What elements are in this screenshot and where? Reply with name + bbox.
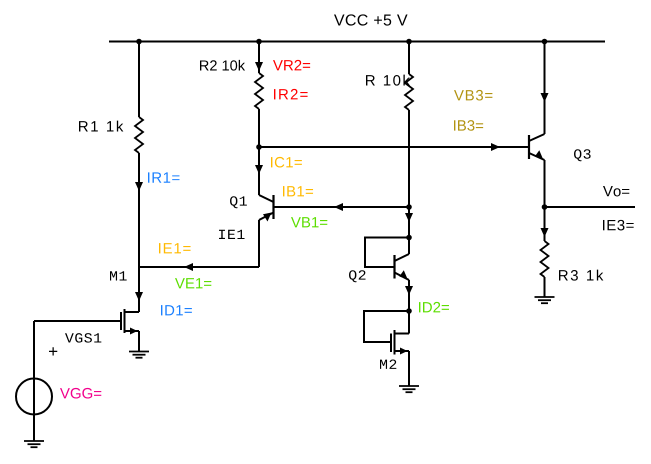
arrow Q1 emitter (PNP) <box>263 213 272 222</box>
resistor R <box>405 74 413 110</box>
label IE3= <box>603 220 634 231</box>
label + of VGG <box>49 347 57 355</box>
label IE1 <box>219 230 245 239</box>
label IB1= orange <box>283 186 313 196</box>
label M2 <box>380 360 396 369</box>
label ID1= blue <box>161 305 192 315</box>
VCC rail wire <box>109 41 605 43</box>
resistor R2 <box>255 73 263 109</box>
wire Q2 base loop <box>365 238 409 268</box>
label IC1= orange <box>271 157 302 168</box>
arrow VB3 down <box>541 93 549 102</box>
wire Q1 base net y207 <box>274 206 410 208</box>
junction node Vo <box>542 204 548 210</box>
label M1 <box>110 271 127 280</box>
transistor Q3 <box>529 134 545 160</box>
wire Q3 emitter down <box>544 160 546 241</box>
source VGG <box>16 379 52 415</box>
label ID2= green <box>419 302 449 312</box>
wire Q2 emitter to M2 <box>408 280 410 334</box>
arrow Q2 collector current down <box>405 213 413 222</box>
ground M2 <box>399 386 419 392</box>
arrow Q3 emitter (NPN) <box>535 150 543 159</box>
wire output Vo <box>545 206 636 208</box>
ground VGG <box>24 441 44 447</box>
resistor R3 <box>541 241 549 277</box>
junction node Q1 base net <box>406 204 412 210</box>
arrow IE3 down <box>541 228 549 237</box>
wire R1 to M1 <box>138 153 140 312</box>
label VGG= magenta <box>60 388 101 399</box>
arrow IR1 down <box>135 182 143 191</box>
wire VGG to ground <box>33 414 35 441</box>
ground R3 <box>535 297 555 303</box>
wire M2 gate loop <box>364 311 409 342</box>
arrow M2 source right <box>400 348 408 355</box>
wire VGG top <box>33 321 35 379</box>
junction node R2-base net <box>256 144 262 150</box>
transistor Q1 <box>259 195 274 220</box>
wire R3 to ground <box>544 277 546 297</box>
label R2 10k <box>200 60 245 71</box>
wire M2 source down <box>408 351 410 386</box>
wire M1 source down <box>138 331 140 352</box>
transistor Q2 <box>395 254 410 280</box>
wire R2 bottom to node <box>258 109 260 195</box>
arrow IB3 right <box>491 143 500 151</box>
label Q2 <box>349 270 366 282</box>
wire Q3 branch vertical <box>544 42 546 135</box>
ground M1 <box>129 352 149 358</box>
wire Q1 emitter vertical <box>258 220 260 267</box>
arrow IB1 left <box>334 203 343 211</box>
wire R bottom to Q2 <box>408 110 410 254</box>
label VGS1 <box>65 333 101 343</box>
wire middle branch vertical top <box>408 42 410 75</box>
label VE1= green <box>175 278 211 288</box>
arrow ID1 down <box>135 292 143 301</box>
label VR2= red <box>273 60 310 70</box>
resistor R1 <box>135 117 143 153</box>
arrow M1 source right <box>130 328 138 335</box>
label R1 1k <box>79 121 123 132</box>
wire R1 branch vertical <box>138 42 140 118</box>
label IR1= blue <box>148 172 179 182</box>
label VB1= green <box>291 217 327 227</box>
label Vo= <box>603 186 629 196</box>
junction node rail-R <box>406 39 412 45</box>
junction node rail-R1 <box>136 39 142 45</box>
label IE1= orange <box>159 243 191 253</box>
mosfet M2 <box>391 330 409 355</box>
wire base net y147 <box>259 146 529 148</box>
label VB3= olive <box>454 90 492 101</box>
label Q1 <box>230 196 247 208</box>
label IB3= olive <box>454 120 483 131</box>
junction node Q2 collector <box>406 235 412 241</box>
junction node rail-Q3 <box>542 39 548 45</box>
label IR2= red <box>274 89 308 99</box>
label Q3 <box>574 149 591 161</box>
junction node M2 drain <box>406 308 412 314</box>
arrow IE1 left <box>184 263 193 271</box>
junction node rail-R2 <box>256 39 262 45</box>
mosfet M1 <box>121 309 139 333</box>
wire IE1 net horizontal <box>139 266 259 268</box>
label R3 1k <box>559 270 603 281</box>
wire R2 branch vertical top <box>258 42 260 74</box>
arrow IC1 down <box>255 165 263 174</box>
label VCC +5 V <box>334 14 408 25</box>
arrow Q2 emitter (NPN) <box>399 270 407 279</box>
wire M1 gate net <box>34 320 122 322</box>
arrow ID2 down <box>405 286 413 295</box>
arrow VR2 down <box>255 62 263 71</box>
label R 10k <box>366 75 410 86</box>
